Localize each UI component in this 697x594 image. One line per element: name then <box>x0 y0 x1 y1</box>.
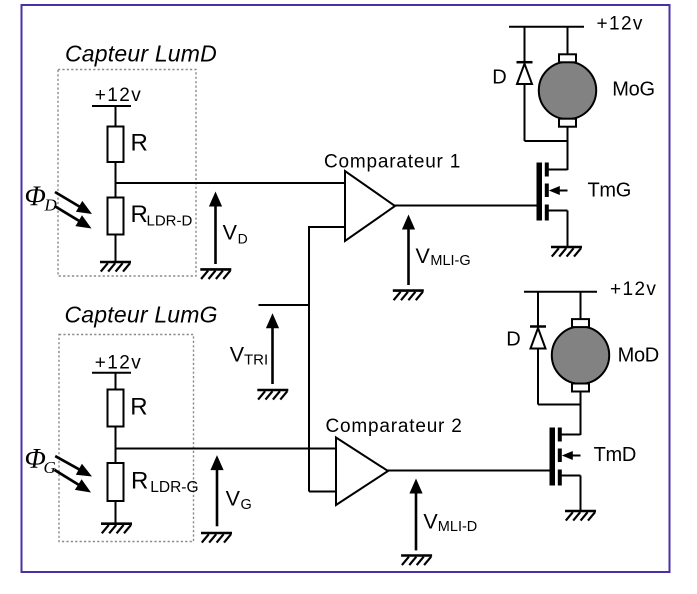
wire node VG to comparator 2 + input <box>116 448 337 450</box>
wire rail to motor MoG <box>567 27 569 55</box>
svg-text:TmD: TmD <box>594 444 636 466</box>
wire R_LDR-G to ground <box>115 501 117 523</box>
ground (TmG source) <box>551 247 582 257</box>
wire TmG source to ground <box>567 211 569 247</box>
motor MoG <box>539 54 596 126</box>
motor MoD <box>552 319 609 391</box>
svg-text:R: R <box>131 467 148 494</box>
svg-text:Capteur LumD: Capteur LumD <box>65 41 217 67</box>
wire rail to diode D (MoG) <box>524 27 526 62</box>
power rail tick (sensor G) <box>92 372 131 374</box>
svg-text:D: D <box>506 329 520 351</box>
svg-text:V: V <box>230 343 245 367</box>
wire rail to motor MoD <box>580 292 582 319</box>
svg-text:TRI: TRI <box>244 352 268 369</box>
ground (V_D) <box>200 269 231 279</box>
op-amp Comparateur 1 <box>345 171 395 241</box>
wire motor MoD to TmD drain <box>580 391 582 435</box>
svg-text:V: V <box>226 487 241 511</box>
svg-text:MLI-G: MLI-G <box>430 253 470 269</box>
resistor R_LDR-G <box>108 463 124 501</box>
transistor TmG <box>537 163 568 221</box>
svg-text:TmG: TmG <box>588 180 632 202</box>
wire +12v to R (sensor D) <box>115 106 117 127</box>
svg-text:Capteur LumG: Capteur LumG <box>65 302 218 328</box>
wire V_TRI to comparator 2 - input <box>309 491 337 493</box>
wire V_TRI vertical bus <box>308 226 310 492</box>
light flux arrows PhiD <box>55 192 93 229</box>
svg-text:MLI-D: MLI-D <box>438 519 477 535</box>
arrow V_MLI-G <box>402 215 415 286</box>
wire V_TRI stub <box>259 304 310 306</box>
svg-text:Comparateur 2: Comparateur 2 <box>326 416 463 437</box>
svg-text:+12v: +12v <box>95 85 142 106</box>
resistor R (sensor G) <box>108 390 124 427</box>
svg-text:+12v: +12v <box>95 353 142 374</box>
wire +12v to R (sensor G) <box>115 373 117 390</box>
label PhiG light flux <box>25 444 56 477</box>
wire R to R_LDR-G <box>115 427 117 464</box>
svg-text:+12v: +12v <box>597 14 644 35</box>
svg-text:V: V <box>416 244 431 268</box>
svg-text:Comparateur 1: Comparateur 1 <box>324 151 461 172</box>
wire TmD source to ground <box>580 476 582 512</box>
svg-text:R: R <box>131 130 148 157</box>
diode D (MoG) <box>517 62 533 84</box>
sensor box Capteur LumG <box>59 335 194 542</box>
resistor R_LDR-D <box>108 198 124 235</box>
ground (TmD source) <box>565 511 596 521</box>
ground (sensor G) <box>101 524 132 534</box>
wire diode to drain net (MoG) <box>524 84 526 141</box>
svg-text:R: R <box>131 201 148 228</box>
wire comparator 2 output to TmD gate <box>387 470 550 472</box>
svg-text:Φ: Φ <box>25 182 46 213</box>
diode D (MoD) <box>530 327 546 349</box>
label V_MLI-D <box>423 510 477 535</box>
op-amp Comparateur 2 <box>336 438 388 506</box>
label PhiD light flux <box>25 182 58 215</box>
ground (sensor D) <box>100 262 131 272</box>
svg-text:MoD: MoD <box>618 345 659 367</box>
svg-text:+12v: +12v <box>610 279 657 300</box>
arrow V_D <box>209 192 222 265</box>
svg-text:D: D <box>492 67 506 89</box>
svg-text:LDR-G: LDR-G <box>150 479 198 496</box>
power rail +12v (MoG) <box>509 26 584 28</box>
ground (V_MLI-D) <box>401 556 432 566</box>
svg-text:V: V <box>423 510 438 534</box>
ground (V_MLI-G) <box>393 291 424 301</box>
wire V_TRI to comparator 1 - input <box>309 226 346 228</box>
wire R_LDR-D to ground <box>115 235 117 262</box>
arrow V_G <box>210 455 223 526</box>
wire R to R_LDR-D <box>115 162 117 198</box>
svg-text:D: D <box>238 230 248 246</box>
wire motor MoG to TmG drain <box>567 127 569 171</box>
svg-text:V: V <box>223 221 238 245</box>
label R_LDR-G <box>131 467 199 496</box>
label V_D <box>223 221 248 247</box>
svg-text:G: G <box>241 497 252 513</box>
ground (V_G) <box>201 533 232 543</box>
transistor TmD <box>550 428 581 486</box>
power rail +12v (MoD) <box>524 291 597 293</box>
wire diode rejoin (MoG) <box>525 140 568 142</box>
label V_G <box>226 487 252 514</box>
svg-text:G: G <box>44 458 56 477</box>
wire node VD to comparator 1 + input <box>116 182 346 184</box>
power rail tick (sensor D) <box>92 105 131 107</box>
label V_MLI-G <box>416 244 471 269</box>
wire comparator 1 output to TmG gate <box>394 205 537 207</box>
label R_LDR-D <box>131 201 193 230</box>
svg-text:R: R <box>130 394 147 421</box>
resistor R (sensor D) <box>108 127 124 163</box>
wire diode to drain net (MoD) <box>537 349 539 405</box>
ground (V_TRI) <box>257 390 288 400</box>
light flux arrows PhiG <box>54 456 92 492</box>
wire rail to diode D (MoD) <box>537 292 539 326</box>
arrow V_MLI-D <box>409 479 422 551</box>
arrow V_TRI <box>266 313 279 384</box>
wire diode rejoin (MoD) <box>538 404 581 406</box>
sensor box Capteur LumD <box>58 70 196 277</box>
svg-text:LDR-D: LDR-D <box>147 213 193 230</box>
svg-text:MoG: MoG <box>612 78 654 100</box>
label V_TRI <box>230 343 268 369</box>
